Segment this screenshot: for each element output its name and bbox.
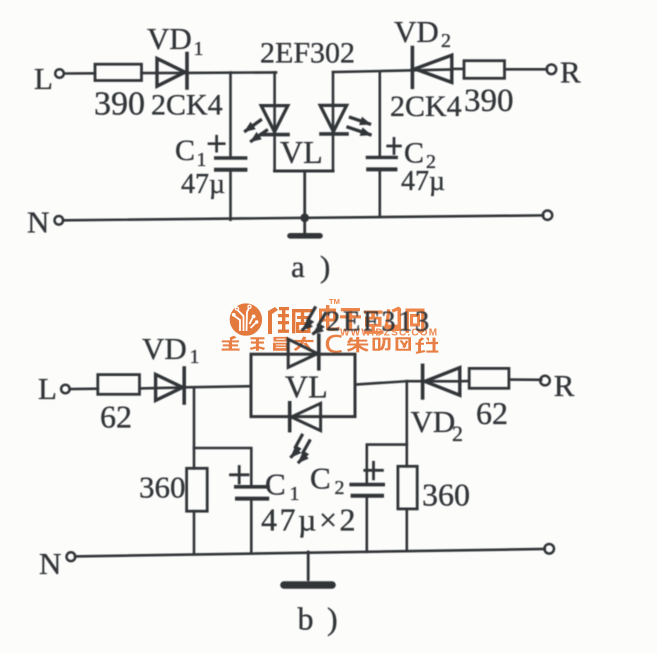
wire VD1 to LED corner (188, 71, 276, 74)
svg-text:a: a (291, 249, 305, 284)
svg-text:360: 360 (139, 470, 186, 505)
svg-text:2CK4: 2CK4 (390, 90, 462, 123)
VL top diode arrows (b) (303, 308, 326, 334)
svg-text:N: N (39, 546, 61, 581)
right branch vertical (b) (405, 381, 408, 551)
wire VD1 to VL box (b) (186, 386, 251, 387)
label VD1 (b) (142, 331, 200, 368)
wire R1 to VD1 (b) (140, 386, 185, 389)
terminal N right (b) (544, 544, 554, 554)
terminal L (b) (61, 385, 70, 394)
svg-text:): ) (327, 601, 338, 637)
capacitor C1 (a) (216, 158, 246, 170)
svg-text:1: 1 (194, 38, 204, 60)
junction dot (a) (300, 213, 309, 222)
resistor 390 (a right) (464, 61, 505, 79)
logo circle (230, 303, 262, 335)
plus sign C1 (a) (209, 136, 224, 151)
label C1 (b) (265, 467, 300, 506)
capacitor C1 (b) (236, 487, 268, 499)
label C1 (a) (175, 134, 207, 171)
circuit b group (38, 307, 575, 637)
svg-text:360: 360 (422, 477, 470, 513)
svg-text:L: L (38, 371, 57, 406)
svg-text:390: 390 (94, 86, 145, 123)
terminal N left (b) (67, 552, 76, 561)
resistor 360 (b right) (398, 466, 417, 509)
capacitor C2 (a) (367, 157, 396, 169)
label VD1 (a) (147, 21, 204, 60)
terminal N left (a) (55, 216, 64, 225)
LED left arrows (a) (246, 120, 267, 141)
wire C1 branch (a) (229, 73, 232, 220)
terminal N right (a) (543, 211, 552, 220)
wire N (b) (75, 549, 545, 556)
resistor 62 (b left) (98, 375, 140, 395)
label C2 (b) (310, 461, 345, 500)
LED left (a) lead (273, 72, 276, 171)
wire L terminal to R1 (b) (70, 387, 98, 390)
svg-text:2EF302: 2EF302 (260, 37, 355, 70)
wire R2 to R terminal (505, 68, 548, 71)
diode VD2 (a) (412, 48, 451, 88)
VL bottom diode arrows (b) (292, 435, 310, 462)
circuit a group (27, 14, 581, 284)
svg-text:1: 1 (190, 346, 200, 368)
resistor 62 (b right) (469, 368, 509, 388)
svg-text:47µ: 47µ (401, 166, 445, 197)
svg-text:1: 1 (197, 149, 207, 171)
wire L terminal to R1 (64, 72, 95, 75)
VL top diode (b) (288, 335, 319, 369)
svg-text:): ) (320, 249, 330, 284)
svg-text:VD: VD (411, 404, 456, 439)
svg-text:b: b (298, 601, 314, 637)
wire VD2 to R2 (452, 68, 464, 71)
svg-text:62: 62 (100, 399, 132, 435)
wordmark 电子市场网 (319, 305, 425, 334)
terminal R (a) (547, 65, 557, 75)
terminal L (a) (55, 69, 64, 78)
plus sign C1 (b) (231, 467, 249, 484)
VL common bottom (a) (275, 171, 333, 218)
svg-text:2: 2 (335, 477, 345, 499)
diode VD2 (b) (423, 365, 460, 398)
resistor 360 (b left) (187, 468, 208, 511)
wire R1 to VD1 (142, 72, 187, 75)
label VD2 (a) (394, 14, 451, 52)
wire corner to VD2 (b) (407, 380, 460, 383)
wordmark 维库 (268, 307, 313, 334)
plus sign C2 (b) (365, 462, 383, 479)
wire VD2 to R2 (b) (460, 380, 469, 383)
svg-text:R: R (560, 55, 581, 90)
wire R2 to terminal (b) (509, 378, 541, 381)
svg-text:62: 62 (476, 395, 508, 431)
LED right (a) (320, 105, 347, 133)
LED left (a) (261, 106, 288, 135)
svg-text:2: 2 (441, 30, 451, 52)
svg-text:VD: VD (394, 14, 439, 49)
VL box (b) (251, 354, 355, 416)
svg-text:L: L (34, 61, 53, 96)
ground (b) (284, 552, 332, 585)
slogan row 全球最大IC采购网站 (222, 335, 439, 354)
VL bottom diode (b) (290, 403, 321, 431)
diode VD1 (b) (156, 368, 185, 403)
svg-text:2EF313: 2EF313 (326, 307, 432, 338)
svg-text:C: C (310, 461, 331, 496)
plus sign C2 (a) (388, 138, 401, 153)
diode VD1 (a) (157, 54, 187, 89)
wire VL box to VD2 corner (b) (355, 381, 407, 384)
LED right arrows (a) (348, 118, 370, 135)
svg-text:VL: VL (285, 369, 328, 405)
svg-text:VD: VD (147, 21, 192, 56)
label VD2 (b) (411, 404, 464, 446)
capacitor C2 (b) (351, 485, 383, 496)
wire corner to VD2 (333, 70, 452, 73)
svg-text:390: 390 (464, 83, 514, 119)
svg-text:47µ×2: 47µ×2 (261, 502, 358, 538)
svg-text:C: C (265, 467, 286, 502)
svg-text:R: R (554, 368, 575, 403)
terminal R (b) (540, 376, 550, 386)
resistor 390 (a left) (95, 64, 142, 80)
svg-text:VD: VD (142, 331, 187, 366)
svg-text:TM: TM (329, 297, 340, 306)
LED right (a) lead (332, 72, 335, 171)
svg-text:VL: VL (280, 134, 323, 170)
wire C1 branch (b) (194, 448, 251, 553)
watermark group (222, 297, 439, 354)
svg-text:C: C (404, 137, 424, 170)
wire N (a) (63, 215, 543, 220)
svg-text:47µ: 47µ (181, 169, 225, 200)
svg-text:2: 2 (452, 421, 463, 446)
label C2 (a) (404, 137, 436, 174)
svg-text:2CK4: 2CK4 (151, 89, 223, 122)
svg-text:C: C (175, 134, 195, 167)
wire C2 branch (b) (367, 445, 407, 552)
left branch vertical (b) (193, 389, 196, 553)
ground (a) (290, 218, 320, 236)
svg-text:N: N (27, 205, 49, 240)
wire C2 branch (a) (378, 72, 381, 217)
